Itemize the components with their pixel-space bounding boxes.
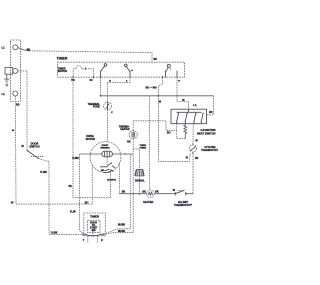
wire cycling stat drop bbox=[192, 153, 194, 194]
wire timer feed drop bbox=[151, 53, 153, 63]
wire motor left lead bbox=[80, 153, 102, 155]
svg-text:4-POSITION: 4-POSITION bbox=[200, 128, 215, 132]
wire heater bus bbox=[119, 193, 146, 195]
wire A to push start bbox=[103, 229, 130, 235]
terminal block TB1 bbox=[11, 40, 21, 102]
wire L1 stub bbox=[18, 48, 30, 51]
timer contact 1 bbox=[100, 64, 107, 77]
wire door switch to push start bbox=[38, 158, 49, 234]
timer box bbox=[58, 62, 185, 77]
svg-text:SW.: SW. bbox=[92, 230, 97, 232]
svg-text:BK: BK bbox=[155, 191, 159, 194]
motor main winding bbox=[102, 151, 113, 157]
svg-text:WINDING: WINDING bbox=[100, 147, 110, 149]
wire L2 drop bbox=[14, 96, 17, 204]
heat switch pole 3 bbox=[193, 113, 196, 124]
node RD/WH junction dot bbox=[158, 95, 160, 97]
hi-limit thermostat bbox=[175, 190, 187, 195]
svg-text:HEAT SWITCH: HEAT SWITCH bbox=[197, 132, 216, 136]
svg-text:BK: BK bbox=[127, 141, 131, 143]
heat switch pole 4 bbox=[201, 113, 204, 124]
wire heater feed drop bbox=[149, 96, 151, 190]
svg-text:RD — WH: RD — WH bbox=[146, 86, 157, 89]
push to start box bbox=[84, 213, 106, 236]
svg-text:BK: BK bbox=[142, 191, 146, 194]
svg-text:RD: RD bbox=[16, 103, 20, 106]
node buzzer to heater bus bbox=[139, 193, 141, 195]
wire thermal fuse to motor bbox=[107, 110, 109, 142]
wire top bus BK bbox=[30, 51, 153, 53]
wire timer motor to contact C bbox=[86, 69, 94, 77]
svg-text:BU: BU bbox=[69, 186, 73, 188]
heat switch box bbox=[171, 109, 207, 124]
heat switch internal bus bbox=[177, 109, 202, 112]
svg-text:9C: 9C bbox=[90, 79, 93, 82]
node motor lead junction bbox=[124, 153, 126, 155]
wire main bus L1 bbox=[101, 95, 214, 97]
svg-text:YL/BK: YL/BK bbox=[51, 233, 58, 235]
node A junction dot bbox=[100, 95, 102, 97]
svg-text:BK/RD: BK/RD bbox=[118, 231, 126, 233]
buzzer signal bbox=[133, 149, 144, 194]
svg-text:YL/RD: YL/RD bbox=[40, 172, 47, 174]
svg-text:YL/BK: YL/BK bbox=[72, 158, 79, 160]
svg-text:TN/BK: TN/BK bbox=[140, 148, 147, 150]
wire bus to heat switch right bbox=[207, 96, 214, 115]
svg-text:RD: RD bbox=[195, 158, 199, 160]
wire TM long vertical bbox=[73, 77, 111, 198]
svg-text:FUSE: FUSE bbox=[93, 106, 100, 109]
wire motor right lead bbox=[112, 153, 133, 155]
svg-text:HEATER: HEATER bbox=[120, 128, 130, 131]
svg-text:TIMER: TIMER bbox=[90, 215, 100, 219]
svg-text:THERMOSTAT*: THERMOSTAT* bbox=[201, 149, 218, 152]
svg-text:BU/BK: BU/BK bbox=[118, 225, 126, 227]
wire heat switch t1 down bbox=[176, 124, 178, 139]
svg-text:RD: RD bbox=[209, 111, 213, 114]
heater bbox=[146, 190, 154, 198]
wire timer RD/WH drop bbox=[159, 77, 163, 96]
wire timer W to heat switch bbox=[177, 77, 189, 109]
svg-text:BU: BU bbox=[167, 131, 171, 134]
svg-text:SWITCH: SWITCH bbox=[29, 145, 39, 149]
svg-text:SIGNAL: SIGNAL bbox=[135, 178, 145, 182]
svg-text:MOTOR: MOTOR bbox=[86, 138, 95, 141]
wire motor neutral drop bbox=[91, 165, 93, 204]
svg-text:HEATER: HEATER bbox=[143, 201, 153, 204]
timer motor TM coil bbox=[73, 66, 85, 77]
wire cycling stat bypass bbox=[159, 96, 191, 162]
neutral lug box bbox=[5, 68, 13, 75]
wire motor switch to heater bus bbox=[118, 164, 120, 194]
svg-text:BU: BU bbox=[85, 201, 89, 204]
wire TN/RD down bbox=[129, 154, 131, 229]
resistor heat switch t2 bbox=[184, 124, 187, 139]
thermal fuse bbox=[104, 102, 112, 110]
svg-text:L2: L2 bbox=[2, 92, 6, 96]
wire timer A down to bus bbox=[100, 77, 102, 96]
wire motor start lead to switch bbox=[80, 154, 86, 234]
wire heater to hi-limit bbox=[154, 193, 175, 195]
timer terminal H bbox=[176, 71, 178, 77]
svg-text:BK: BK bbox=[154, 58, 158, 61]
timer contact 2 bbox=[125, 64, 131, 77]
thermostat heater bbox=[129, 131, 137, 139]
wire cycling stat to heat switch t3 bbox=[192, 124, 194, 145]
wire N stub to door switch bbox=[18, 71, 27, 150]
svg-text:BK: BK bbox=[27, 49, 31, 51]
heat switch pole 1 bbox=[176, 113, 179, 124]
wire timer B staircase bbox=[108, 77, 131, 102]
wire thermo-heater down bbox=[132, 139, 134, 233]
heat switch pole 2 bbox=[185, 113, 188, 124]
svg-text:THERMOSTAT*: THERMOSTAT* bbox=[174, 204, 192, 207]
terminal L1 bbox=[13, 45, 18, 50]
cycling thermostat bbox=[190, 143, 197, 154]
timer terminal ticks bbox=[73, 76, 177, 79]
svg-text:TIMER: TIMER bbox=[57, 56, 68, 60]
push to start switch bbox=[49, 231, 103, 243]
svg-text:L1: L1 bbox=[2, 45, 6, 49]
svg-text:L1: L1 bbox=[193, 103, 197, 107]
wire BU thermo-heater to heat switch bbox=[133, 121, 177, 131]
svg-text:MOTOR: MOTOR bbox=[58, 70, 67, 73]
door switch bbox=[27, 150, 44, 159]
svg-text:YL/W: YL/W bbox=[70, 211, 77, 213]
svg-text:THERMO-: THERMO- bbox=[119, 126, 130, 128]
svg-text:(START): (START) bbox=[107, 179, 116, 182]
svg-text:BK: BK bbox=[122, 190, 126, 193]
push to start inner box bbox=[88, 220, 101, 232]
wire W neutral bus bbox=[16, 203, 92, 205]
wire t1 t2 link bbox=[177, 138, 186, 140]
drive motor circle bbox=[90, 142, 121, 173]
timer contact P bbox=[165, 64, 171, 77]
svg-text:TM: TM bbox=[71, 79, 75, 82]
terminal L2 bbox=[13, 91, 18, 96]
terminal N bbox=[13, 68, 18, 73]
ground bbox=[4, 74, 9, 86]
wire hi-limit to cycling stat bbox=[186, 193, 193, 195]
wire B to push start bbox=[103, 233, 133, 235]
svg-text:BK: BK bbox=[101, 170, 105, 172]
motor centrifugal switch bbox=[100, 157, 116, 173]
